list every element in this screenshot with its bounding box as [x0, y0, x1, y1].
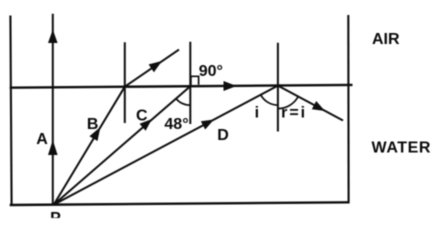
ray A vertical [52, 14, 54, 205]
ray B refracted [125, 50, 179, 87]
arrowhead ray D incident [201, 120, 214, 130]
arrowhead ray C refracted along surface [224, 81, 237, 91]
svg-text:A: A [36, 131, 48, 148]
svg-text:B: B [87, 116, 99, 133]
tank right wall [347, 15, 349, 203]
tank left wall [10, 16, 11, 206]
ray C incident [54, 86, 191, 204]
svg-text:D: D [217, 127, 229, 144]
arrowhead ray B refracted [149, 61, 162, 72]
arrowhead ray A above surface [48, 30, 58, 44]
normal N3 at ray D [277, 43, 279, 132]
arrowhead ray A below surface [48, 140, 58, 155]
ray D incident [54, 86, 278, 205]
right angle square at N2 [191, 76, 199, 85]
svg-text:AIR: AIR [372, 31, 400, 48]
water surface line [10, 85, 353, 88]
svg-text:WATER: WATER [372, 139, 432, 156]
svg-text:90°: 90° [199, 63, 223, 80]
svg-text:C: C [136, 108, 148, 125]
normal N1 at ray B [124, 42, 126, 123]
tank bottom wall [10, 202, 350, 205]
arc angle r between N3 and reflected ray [278, 97, 298, 109]
arrowhead ray D reflected [312, 101, 325, 111]
svg-text:P: P [50, 210, 61, 218]
arc 48 deg between ray C and N2 [176, 99, 190, 106]
svg-text:i: i [255, 105, 259, 122]
svg-text:r: r [281, 105, 287, 122]
ray B incident [54, 87, 125, 205]
svg-text:=: = [289, 105, 298, 122]
arrowhead ray B incident [89, 127, 100, 141]
arc angle i between ray D and N3 [261, 95, 278, 105]
ray D reflected [278, 86, 343, 121]
normal N2 at ray C [189, 42, 191, 124]
arrowhead ray C incident [140, 119, 153, 131]
svg-text:i: i [301, 105, 305, 122]
svg-text:48°: 48° [164, 116, 188, 133]
